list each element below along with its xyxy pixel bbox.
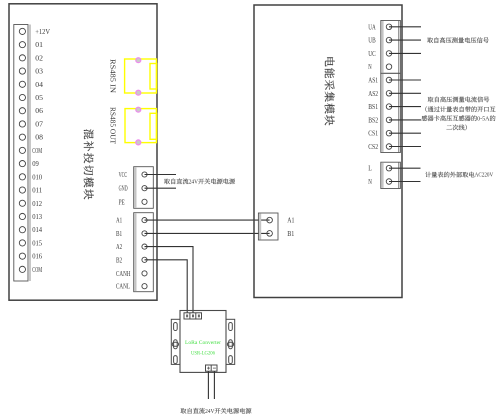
svg-text:010: 010	[32, 172, 42, 181]
wire CS2 to external	[389, 146, 421, 148]
terminal X1 pin 13 circle	[19, 187, 25, 193]
terminal UB circle	[386, 37, 392, 43]
note line: 二次线）	[446, 125, 466, 131]
svg-text:BS2: BS2	[368, 115, 378, 124]
svg-text:RS485 IN: RS485 IN	[109, 59, 118, 94]
svg-text:L: L	[368, 164, 372, 173]
svg-text:CS1: CS1	[368, 129, 378, 138]
terminal AS2 circle	[386, 91, 392, 97]
wire A1 net (U1.A1 to U2.A1)	[145, 219, 270, 221]
wire U3 power - down	[213, 371, 215, 399]
terminal X1 pin 17 circle	[19, 240, 25, 246]
module U3 LoRa Converter USR-LG206 body	[180, 311, 226, 373]
U3 top pin marks	[186, 315, 200, 318]
svg-text:CANH: CANH	[116, 269, 131, 278]
terminal X1 pin 16 circle	[19, 227, 25, 233]
wire BS2 to external	[389, 119, 421, 121]
svg-text:24V: 24V	[189, 178, 199, 185]
terminal X1 pin 14 circle	[19, 200, 25, 206]
svg-text:A1: A1	[116, 216, 122, 225]
svg-text:A1: A1	[287, 216, 294, 225]
note: 取自直流24V开关电源电源 (from DC24V switching power supply)	[164, 178, 235, 185]
terminal X1 pin 11 circle	[19, 161, 25, 167]
svg-text:CANL: CANL	[116, 282, 130, 291]
terminal L circle	[386, 165, 392, 171]
svg-text:BS1: BS1	[368, 102, 378, 111]
note: 取自高压测量电压信号 (HV metering voltage signals)	[427, 37, 489, 43]
terminal X2 VCC circle	[142, 172, 147, 177]
svg-text:GND: GND	[119, 184, 128, 193]
connector J1 RS485 IN (RJ45, yellow)	[125, 59, 157, 93]
wire UA to external	[389, 26, 421, 28]
terminal UC circle	[386, 51, 392, 57]
svg-text:24V: 24V	[205, 408, 215, 415]
svg-text:RS485 OUT: RS485 OUT	[109, 107, 118, 144]
terminal block X3 (A1 B1 A2 B2 CANH CANL)	[134, 213, 154, 292]
svg-text:07: 07	[35, 119, 43, 128]
module U1 name text 混补投切模块 (rotated)	[84, 129, 94, 199]
terminal strip X1 (19 poles)	[14, 25, 30, 282]
terminal CS2 circle	[386, 144, 392, 150]
svg-text:01: 01	[35, 40, 43, 49]
connector J2 pin circle bottom	[136, 140, 141, 145]
svg-text:AC220V: AC220V	[475, 172, 494, 179]
connector X4 (A1 B1 comms input on U2)	[258, 213, 278, 240]
module U2 电能采集模块 (energy acquisition module) outline	[254, 5, 402, 298]
svg-text:AS1: AS1	[368, 76, 378, 85]
svg-text:08: 08	[35, 133, 43, 142]
U3 right mounting ear	[226, 319, 235, 364]
terminal X3 CANL circle	[142, 284, 147, 289]
svg-text:04: 04	[35, 80, 43, 89]
wire L mains	[389, 167, 421, 169]
note: 计量表的外部取电AC220V (meter external AC220V supply)	[425, 172, 493, 179]
svg-text:012: 012	[32, 199, 42, 208]
svg-text:VCC: VCC	[119, 170, 128, 179]
svg-text:COM: COM	[32, 265, 42, 274]
U3 power pin marks + and -	[207, 367, 216, 370]
terminal X3 A1 circle	[142, 218, 147, 223]
svg-text:N: N	[368, 177, 372, 186]
terminal X4 A1 circle	[267, 217, 273, 223]
terminal block X2 (VCC GND PE)	[134, 167, 154, 209]
wire B2 net (U1.B2 to LoRa converter pin B)	[145, 260, 188, 313]
terminal X1 pin 18 circle	[19, 253, 25, 259]
note line: 感器卡高压互感器的0-5A的	[422, 115, 496, 122]
terminal block X5 (UA UB UC N voltage inputs)	[381, 21, 401, 74]
svg-text:USR-LG206: USR-LG206	[191, 351, 215, 357]
wire BS1 to external	[389, 106, 421, 108]
note: 取自直流24V开关电源电源 (bottom, LoRa supply)	[181, 408, 252, 415]
svg-text:014: 014	[32, 225, 42, 234]
terminal X1 pin 2 circle	[19, 42, 25, 48]
terminal N circle	[386, 179, 392, 185]
connector J2 pin circle top	[136, 107, 141, 112]
svg-text:016: 016	[32, 252, 42, 261]
terminal CS1 circle	[386, 130, 392, 136]
U3 bottom terminal strip (power + -)	[206, 365, 218, 371]
module U2 name text 电能采集模块 (rotated)	[325, 57, 335, 125]
terminal X1 pin 6 circle	[19, 94, 25, 100]
terminal AS1 circle	[386, 77, 392, 83]
terminal UA circle	[386, 24, 392, 30]
wire U3 power + down	[207, 371, 209, 399]
terminal N circle	[386, 64, 392, 70]
terminal X1 pin 3 circle	[19, 55, 25, 61]
svg-text:AS2: AS2	[368, 89, 378, 98]
svg-text:UC: UC	[368, 49, 376, 58]
terminal X3 B2 circle	[142, 257, 147, 262]
wire GND to 24V supply	[145, 187, 177, 189]
note line: （通过计量表自带的开口互	[425, 106, 495, 112]
svg-text:COM: COM	[32, 146, 42, 155]
svg-text:011: 011	[32, 186, 42, 195]
terminal X1 pin 5 circle	[19, 81, 25, 87]
U3 left mounting ear	[171, 319, 180, 364]
svg-text:02: 02	[35, 53, 43, 62]
terminal X1 pin 1 circle	[19, 28, 25, 34]
terminal X2 GND circle	[142, 186, 147, 191]
connector J2 RS485 OUT (RJ45, yellow)	[125, 109, 157, 143]
terminal BS1 circle	[386, 104, 392, 110]
svg-text:A2: A2	[116, 242, 122, 251]
terminal X1 pin 10 circle	[19, 147, 25, 153]
note line: 取自高压测量电流信号	[428, 96, 490, 102]
terminal X1 pin 9 circle	[19, 134, 25, 140]
terminal block X7 (L N mains supply)	[381, 162, 401, 188]
terminal X1 pin 15 circle	[19, 213, 25, 219]
svg-text:+12V: +12V	[35, 27, 50, 36]
connector J1 pin circle bottom	[136, 90, 141, 95]
svg-text:B1: B1	[116, 229, 122, 238]
svg-text:09: 09	[32, 159, 39, 168]
svg-text:015: 015	[32, 238, 42, 247]
svg-text:N: N	[368, 62, 372, 71]
terminal X3 A2 circle	[142, 244, 147, 249]
terminal X3 B1 circle	[142, 231, 147, 236]
svg-text:PE: PE	[119, 197, 125, 206]
svg-text:UB: UB	[368, 36, 376, 45]
wire VCC to 24V supply	[145, 174, 177, 176]
svg-text:05: 05	[35, 93, 43, 102]
wire AS1 to external	[389, 79, 421, 81]
wire B1 net (U1.B1 to U2.B1)	[145, 232, 270, 234]
wire UB to external	[389, 39, 421, 41]
module U1 混补投切模块 (hybrid compensation switching module) outline	[9, 4, 157, 300]
svg-text:LoRa Converter: LoRa Converter	[185, 340, 221, 346]
terminal X1 pin 4 circle	[19, 68, 25, 74]
terminal X1 pin 19 circle	[19, 266, 25, 272]
svg-text:CS2: CS2	[368, 142, 378, 151]
wire CS1 to external	[389, 132, 421, 134]
terminal X2 PE circle	[142, 199, 147, 204]
terminal X1 pin 12 circle	[19, 174, 25, 180]
wire UC to external	[389, 52, 421, 54]
terminal X1 pin 8 circle	[19, 121, 25, 127]
terminal X4 B1 circle	[267, 231, 273, 237]
U3 top terminal strip (pins B A G)	[184, 313, 202, 319]
wire N mains	[389, 181, 421, 183]
svg-text:013: 013	[32, 212, 42, 221]
connector J1 pin circle top	[136, 58, 141, 63]
wire A2 net (U1.A2 to LoRa converter pin A)	[145, 247, 194, 313]
terminal BS2 circle	[386, 117, 392, 123]
svg-text:06: 06	[35, 106, 43, 115]
wire AS2 to external	[389, 92, 421, 94]
svg-text:UA: UA	[368, 22, 376, 31]
svg-text:B2: B2	[116, 255, 122, 264]
terminal X1 pin 7 circle	[19, 108, 25, 114]
terminal block X6 (AS1..CS2 current inputs)	[381, 73, 401, 152]
svg-text:0-5A: 0-5A	[477, 115, 490, 122]
terminal X3 CANH circle	[142, 271, 147, 276]
svg-text:B1: B1	[287, 229, 294, 238]
svg-text:03: 03	[35, 67, 43, 76]
